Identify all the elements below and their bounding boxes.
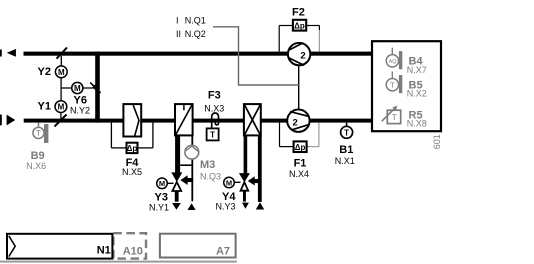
sensor B1 — [335, 123, 355, 167]
wire fan connector — [298, 65, 300, 109]
wire heating bypass bridge — [180, 164, 192, 166]
wire Y2-Y1 connector — [60, 78, 62, 101]
svg-text:M: M — [74, 84, 81, 93]
svg-text:N.X2: N.X2 — [407, 89, 427, 99]
svg-text:N.Q1: N.Q1 — [185, 15, 206, 25]
wire cooling supply pipe — [244, 135, 248, 173]
room unit box — [372, 41, 441, 131]
svg-text:T: T — [344, 128, 349, 137]
svg-text:F3: F3 — [208, 90, 221, 102]
sensor B4 — [386, 48, 427, 75]
module A7 — [160, 234, 236, 258]
svg-text:Y3: Y3 — [155, 192, 168, 204]
svg-text:AQ: AQ — [389, 59, 398, 65]
damper Y2 — [38, 48, 68, 78]
svg-text:N.Q3: N.Q3 — [200, 171, 221, 181]
svg-text:F2: F2 — [292, 6, 305, 18]
node arrow exhaust air left — [7, 49, 16, 57]
wire cooling return pipe — [258, 135, 262, 202]
wire bottom duct line — [24, 119, 372, 123]
svg-text:N.Q2: N.Q2 — [185, 29, 206, 39]
svg-text:2: 2 — [300, 51, 305, 62]
node arrow supply air left — [7, 115, 16, 126]
svg-text:N.X3: N.X3 — [204, 104, 224, 114]
fan F1 — [287, 110, 309, 132]
svg-text:T: T — [392, 112, 397, 122]
sensor B5 — [386, 72, 427, 99]
svg-text:Y1: Y1 — [38, 100, 51, 112]
svg-text:N.Y1: N.Y1 — [149, 203, 169, 213]
sensor F3 — [204, 90, 224, 141]
svg-text:Δp: Δp — [294, 22, 305, 31]
damper Y6 — [61, 82, 101, 115]
wire left edge stub top — [0, 50, 2, 57]
svg-text:N.Y2: N.Y2 — [70, 105, 90, 115]
svg-text:Δp: Δp — [295, 143, 306, 152]
svg-text:Δp: Δp — [127, 144, 138, 153]
svg-text:N.Y3: N.Y3 — [216, 202, 236, 212]
wire bottom grey rail — [0, 261, 237, 263]
damper Y1 — [38, 100, 67, 126]
controller N1 — [7, 234, 112, 259]
svg-text:M: M — [159, 179, 165, 188]
svg-text:Y2: Y2 — [38, 66, 51, 78]
fan F2 — [288, 43, 310, 66]
svg-text:II: II — [176, 29, 181, 39]
svg-text:T: T — [390, 81, 395, 90]
wire top duct line — [24, 52, 373, 56]
filter F4 — [111, 104, 152, 177]
wire heating return pipe — [191, 135, 193, 201]
svg-text:N.X5: N.X5 — [122, 167, 142, 177]
valve Y4 — [216, 173, 265, 211]
wire speed signal bracket — [213, 27, 299, 85]
svg-text:M3: M3 — [200, 159, 215, 171]
svg-text:I: I — [176, 15, 179, 25]
module A10 — [113, 233, 146, 258]
sensor B9 — [26, 123, 48, 171]
svg-text:2: 2 — [293, 117, 298, 128]
svg-text:N.X7: N.X7 — [407, 65, 427, 75]
setpoint R5 — [382, 106, 427, 129]
sensor F1 dp — [280, 123, 319, 179]
svg-text:N.X4: N.X4 — [289, 169, 309, 179]
valve Y3 — [149, 172, 196, 212]
svg-text:F1: F1 — [294, 158, 307, 170]
svg-text:A7: A7 — [216, 246, 230, 258]
cooling coil — [244, 104, 261, 135]
svg-text:N.X8: N.X8 — [407, 119, 427, 129]
pump M3 — [185, 145, 221, 181]
wire left edge stub bottom — [0, 115, 2, 126]
wire heating supply pipe — [175, 135, 180, 173]
svg-text:N1: N1 — [97, 244, 111, 256]
svg-text:601: 601 — [432, 134, 442, 149]
svg-text:A10: A10 — [123, 245, 143, 257]
wire vertical duct connector — [95, 52, 100, 123]
svg-text:N.X1: N.X1 — [335, 156, 355, 166]
svg-text:N.X6: N.X6 — [26, 161, 46, 171]
svg-text:T: T — [36, 129, 41, 138]
heating coil — [175, 104, 193, 135]
svg-text:M: M — [58, 68, 65, 77]
sensor F2 dp — [279, 6, 319, 51]
svg-text:T: T — [210, 131, 215, 140]
svg-text:B1: B1 — [339, 144, 353, 156]
svg-text:M: M — [226, 178, 232, 187]
svg-text:M: M — [58, 103, 65, 112]
